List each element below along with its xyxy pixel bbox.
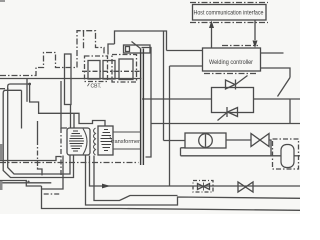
node dot [28,83,31,86]
wire controller right lower [260,68,290,78]
CBT module dash-dot box [85,56,108,82]
inverter block box [115,31,167,51]
welding controller U2 [203,48,261,71]
edge smudge left low [0,181,3,190]
transformer core coil [94,128,96,155]
primary curve [83,129,87,155]
dash-dot skyline boundary [0,31,104,76]
check valve dash-dot box [193,181,213,193]
CBT inner boxes [88,61,100,80]
transformer left return wire [42,156,64,190]
wire to controller B [170,65,203,67]
primary hatch [69,131,84,151]
flowmeter box [185,133,226,148]
dash-dot on controller top edge [222,45,258,47]
module solid box [119,59,133,80]
vertical to gas line [169,66,171,186]
SCR pair loop [212,88,254,113]
cylinder outlet [294,155,300,157]
module dash-dot box 2 [112,55,137,83]
gas cylinder [281,145,294,168]
wire to left edge [0,182,51,184]
vertical mid-left [61,81,67,128]
flow arrow [102,184,111,189]
feeder crossing to primary [73,113,75,128]
svg-text:CBT.: CBT. [91,84,102,90]
bottom-most wire [42,186,301,210]
step wire lower left [0,157,62,161]
host communication interface box [193,5,267,21]
cylinder inlet wire [181,155,282,157]
transformer secondary box [98,126,113,155]
horizontal wire y=123.5 [152,123,301,125]
CT ring [65,54,72,105]
step piece lower left [0,181,42,187]
svg-text:Welding controller: Welding controller [209,59,254,66]
wire bus-top to flowmeter column [142,48,152,158]
AC input line [0,78,142,80]
inverter left step [108,44,115,55]
corner to cable [38,168,43,176]
gas cylinder dashed box [273,139,299,169]
arrow controller to host [211,27,213,48]
input pair vertical [26,79,28,102]
svg-text:transformer: transformer [111,139,140,145]
gas wire flowmeter to valve [226,139,251,141]
dash-dot border below host box [190,22,268,24]
vertical below step [37,121,39,140]
wire valve to cylinder [269,140,271,156]
svg-text:Host communication interface: Host communication interface [194,11,265,17]
transformer T1 primary box [67,128,90,155]
small box above modules [124,45,151,53]
cable outer J [3,90,73,177]
dash-dot border above host box [190,2,268,4]
dash-dot stub left [0,88,10,90]
dash-dot below controller [204,73,256,75]
wire SCR loop to right edge [254,98,301,100]
branch from flowmeter [181,148,186,156]
dash-dot segment [44,193,60,195]
wire from node stepping down [30,84,105,126]
cable inner J [8,84,70,174]
feeder from CT ring [70,105,72,129]
dash-dot line under transformer [0,162,139,164]
corner speck [0,0,5,2]
flowmeter dial [199,134,213,148]
valve V2 [238,182,253,192]
secondary hatch [101,130,113,151]
dash-dot vertical left of transformer [60,128,62,176]
diagonal into bus bar [132,42,141,49]
bus bar [141,49,144,166]
vertical from stub [21,90,23,128]
thyristor top (right-pointing) [226,80,236,89]
arrow host to controller [254,21,256,41]
stepped wire 3 [86,156,301,206]
check valve symbol [198,184,210,190]
primary feeders [113,132,141,149]
dash-dot vertical lower left [37,140,39,168]
vertical feeding flowmeter [164,32,186,141]
edge smudge left [0,144,3,160]
wire inverter to controller A [167,50,203,52]
valve V1 [251,134,269,147]
small mark in box [126,47,130,52]
thyristor bottom (left-pointing) [228,108,238,117]
gas line with arrow [90,156,301,187]
wire down from switch node [289,99,291,124]
wire controller right upper [260,52,284,54]
switch blade [278,78,291,97]
dash-dot through modules [82,70,140,72]
stepped wire 2 [94,156,178,201]
wire bus to SCR loop [142,98,212,100]
junction dot [27,181,29,183]
